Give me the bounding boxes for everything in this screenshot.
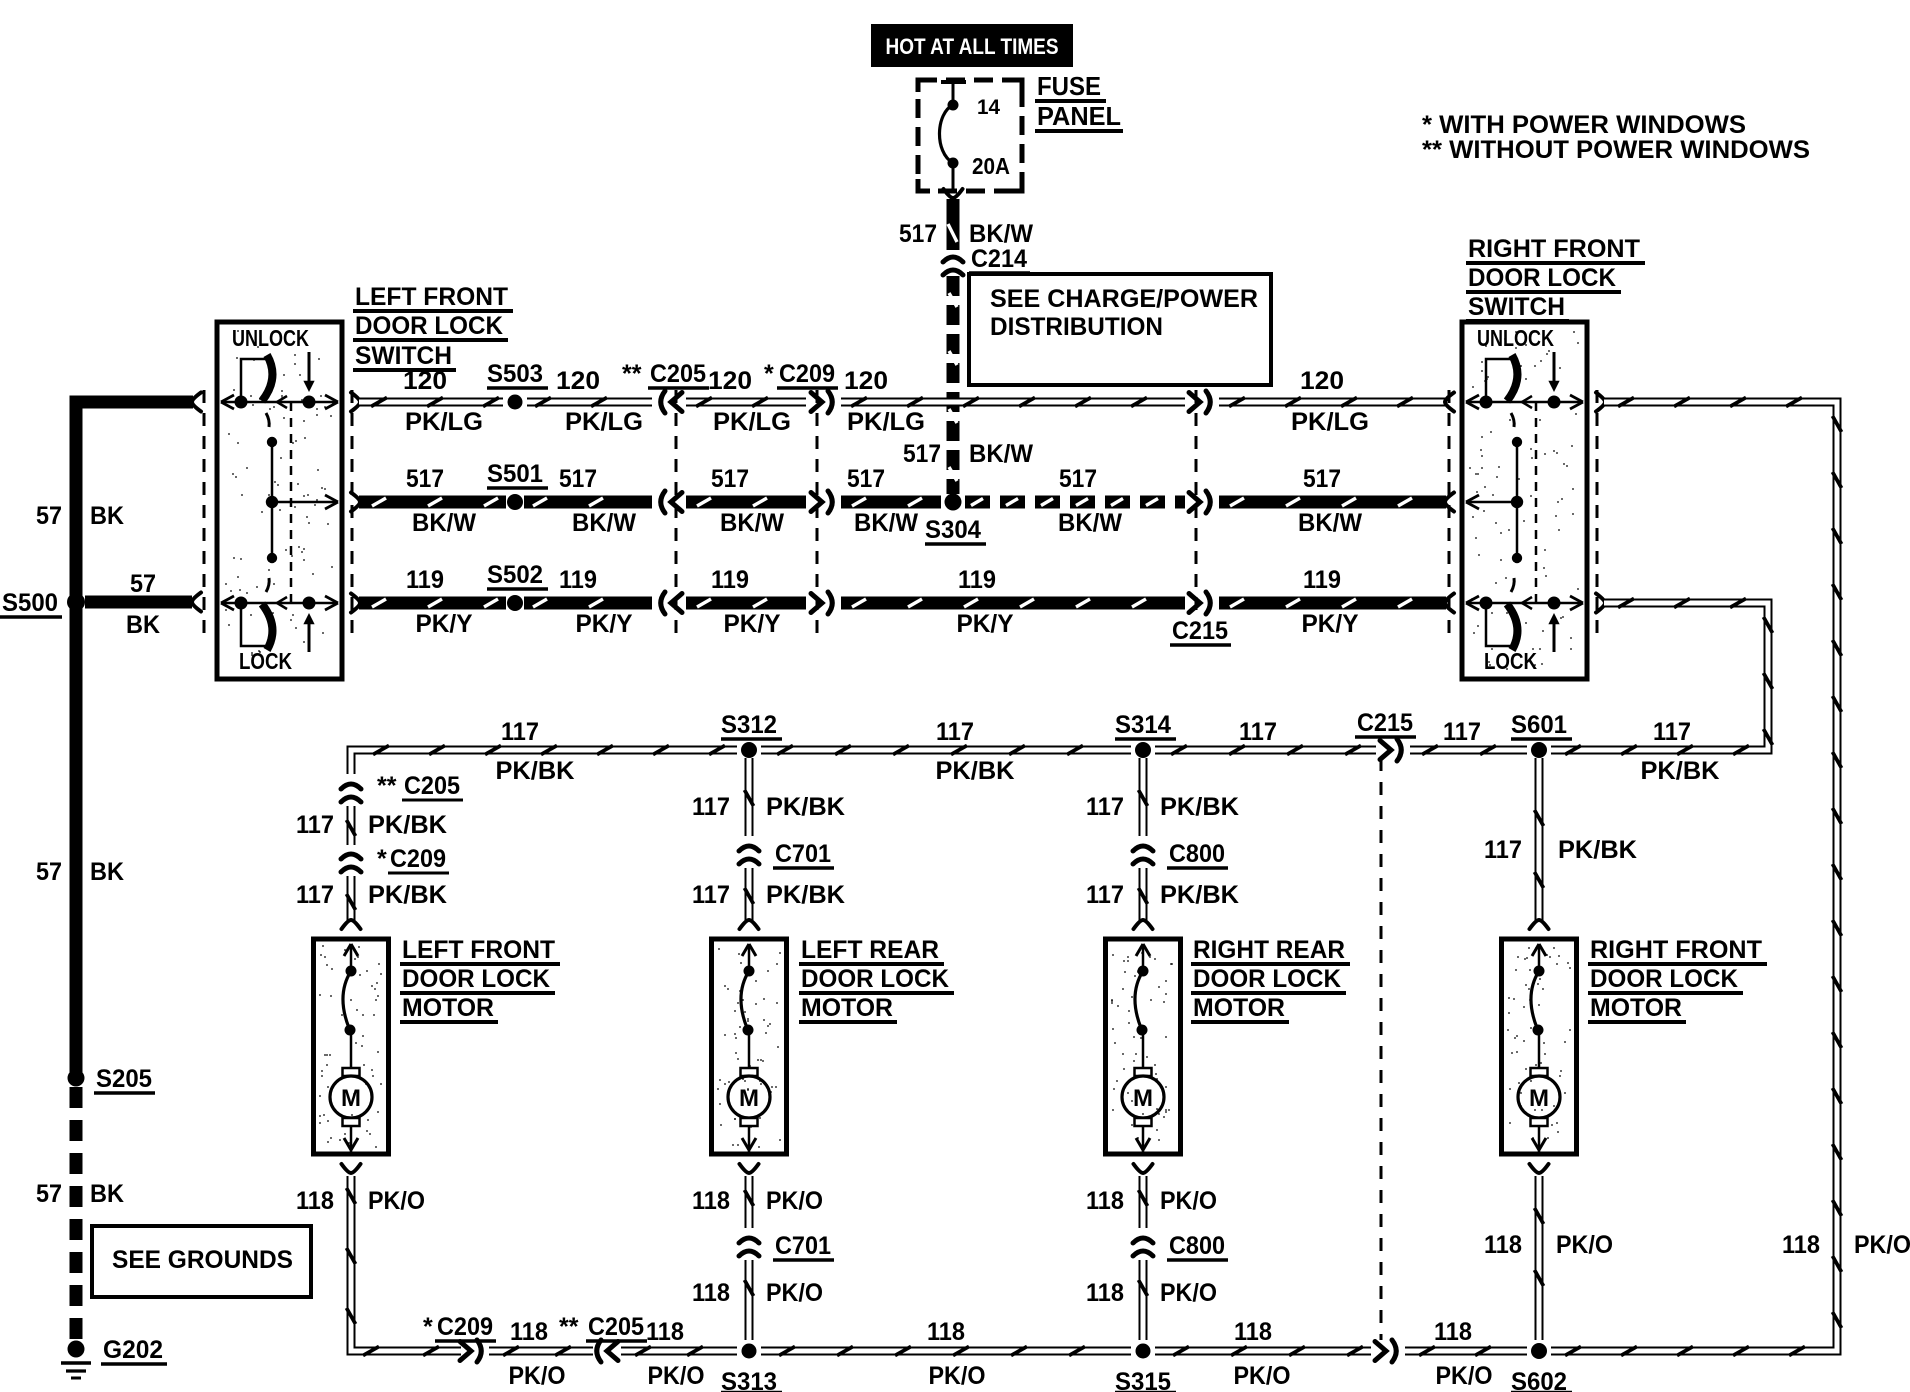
label S313 xyxy=(721,1368,782,1392)
svg-text:SWITCH: SWITCH xyxy=(1468,293,1565,321)
row3 number labels 119 xyxy=(406,566,1341,594)
label S502 xyxy=(487,561,548,589)
svg-text:118: 118 xyxy=(1234,1318,1272,1346)
connector C215 row1 xyxy=(1189,391,1210,413)
svg-text:PK/O: PK/O xyxy=(1854,1231,1910,1259)
wire 119 PK/Y seg4 xyxy=(841,599,1185,607)
drop3 wire 117 PK/BK lower xyxy=(1139,868,1148,921)
label **C205 row1 xyxy=(622,360,709,388)
wire 57 BK left vertical with top horizontal xyxy=(76,393,201,1079)
svg-text:PANEL: PANEL xyxy=(1037,101,1121,131)
right front door lock switch box xyxy=(1462,322,1587,679)
svg-text:BK/W: BK/W xyxy=(412,509,476,537)
svg-text:DOOR LOCK: DOOR LOCK xyxy=(801,965,949,993)
svg-text:117: 117 xyxy=(692,881,730,909)
svg-text:PK/LG: PK/LG xyxy=(565,408,643,436)
svg-text:SEE CHARGE/POWER: SEE CHARGE/POWER xyxy=(990,285,1258,313)
svg-text:PK/O: PK/O xyxy=(1160,1279,1217,1307)
svg-text:RIGHT REAR: RIGHT REAR xyxy=(1193,936,1345,964)
bottom row number labels 118 xyxy=(510,1318,1472,1346)
splice S312 xyxy=(741,742,757,758)
wire 117 PK/BK right link (switch row3 to S601) xyxy=(1551,594,1773,755)
svg-text:S314: S314 xyxy=(1115,711,1171,739)
drop2 wire 117 PK/BK lower xyxy=(745,868,754,921)
row1 number labels 120 xyxy=(403,367,1344,395)
svg-text:DOOR LOCK: DOOR LOCK xyxy=(402,965,550,993)
svg-text:PK/Y: PK/Y xyxy=(416,610,473,638)
label 117 PK/BK drop3 upper xyxy=(1086,793,1239,821)
svg-text:119: 119 xyxy=(406,566,444,594)
wire 517 BK/W seg3 xyxy=(686,498,806,506)
label C215 row3 xyxy=(1170,617,1231,645)
splice S500 xyxy=(67,593,85,611)
label S315 xyxy=(1115,1368,1176,1392)
wire 117 PK/BK seg1 with corner to motor1 xyxy=(351,746,737,775)
wire 119 PK/Y seg1 xyxy=(351,594,506,613)
splice S601 xyxy=(1531,742,1547,758)
svg-text:C209: C209 xyxy=(437,1313,493,1341)
svg-text:118: 118 xyxy=(510,1318,548,1346)
svg-text:57: 57 xyxy=(130,570,156,598)
svg-text:**: ** xyxy=(377,772,397,800)
svg-text:C205: C205 xyxy=(588,1313,644,1341)
connector C209 bottom xyxy=(460,1340,481,1362)
wire 117 PK/BK seg4 xyxy=(1410,746,1527,755)
splice S315 xyxy=(1136,1344,1151,1359)
svg-text:118: 118 xyxy=(692,1187,730,1215)
connector C215 row3 xyxy=(1189,592,1210,614)
svg-text:PK/O: PK/O xyxy=(766,1187,823,1215)
wire 118 PK/O bottom seg5 xyxy=(1155,1347,1371,1356)
wire label 57 above S500 stub xyxy=(130,570,156,598)
svg-text:PK/BK: PK/BK xyxy=(766,881,845,909)
svg-text:517: 517 xyxy=(1059,465,1097,493)
svg-text:120: 120 xyxy=(844,367,888,395)
drop1 wire 118 PK/O to bottom row with corner xyxy=(347,1176,462,1356)
drop3 fork into motor3 xyxy=(1134,920,1153,929)
wire 517 BK/W seg2 xyxy=(524,498,652,506)
svg-text:S602: S602 xyxy=(1511,1368,1567,1392)
label S314 xyxy=(1115,711,1176,739)
svg-text:120: 120 xyxy=(403,367,447,395)
wire 120 PK/LG seg2 xyxy=(527,398,652,407)
svg-text:120: 120 xyxy=(708,367,752,395)
svg-text:PK/BK: PK/BK xyxy=(1558,836,1637,864)
connector C215 row2 xyxy=(1189,491,1210,513)
label 118 PK/O drop4 xyxy=(1484,1231,1613,1259)
label C800 drop3 xyxy=(1167,840,1228,868)
wire 517 BK/W dashed from C214 to S304 xyxy=(949,276,957,494)
fuse panel box xyxy=(918,80,1022,191)
wire 120 PK/LG seg4 xyxy=(841,398,1185,407)
wire 119 PK/Y seg2 xyxy=(524,599,652,607)
svg-text:BK: BK xyxy=(90,858,124,886)
wire 117 PK/BK seg2 xyxy=(761,746,1131,755)
connector line C215 dashed vertical upper xyxy=(1195,390,1198,612)
drop2 fork into motor2 xyxy=(740,920,759,929)
connector C209 row2 xyxy=(811,491,832,513)
row3 color labels PK/Y xyxy=(416,610,1359,638)
label 118 PK/O drop3 upper xyxy=(1086,1187,1217,1215)
svg-text:PK/Y: PK/Y xyxy=(724,610,781,638)
splice S314 xyxy=(1135,742,1151,758)
svg-text:C800: C800 xyxy=(1169,840,1225,868)
svg-text:S205: S205 xyxy=(96,1065,152,1093)
svg-text:C800: C800 xyxy=(1169,1232,1225,1260)
label 117 PK/BK drop1 lower xyxy=(296,881,447,909)
svg-text:M: M xyxy=(1133,1085,1153,1112)
svg-text:DISTRIBUTION: DISTRIBUTION xyxy=(990,313,1163,341)
left switch connector dashed lines xyxy=(204,390,352,640)
label **C205 drop1 xyxy=(377,772,463,800)
svg-text:C215: C215 xyxy=(1172,617,1228,645)
wire 57 BK dashed from S205 to G202 xyxy=(70,1087,83,1341)
svg-text:117: 117 xyxy=(296,811,334,839)
label C800 drop3 lower xyxy=(1167,1232,1228,1260)
row2 color labels BK/W xyxy=(412,509,1362,537)
label *C209 row1 xyxy=(764,360,838,388)
svg-text:M: M xyxy=(341,1085,361,1112)
connector C209 row3 xyxy=(811,592,832,614)
row2 number labels 517 xyxy=(406,465,1341,493)
label 118 PK/O drop2 upper xyxy=(692,1187,823,1215)
connector C205 bottom xyxy=(597,1340,618,1362)
svg-text:MOTOR: MOTOR xyxy=(402,994,494,1022)
label S602 xyxy=(1511,1368,1572,1392)
svg-text:117: 117 xyxy=(1653,718,1691,746)
splice S205 xyxy=(68,1070,85,1087)
svg-text:S304: S304 xyxy=(925,516,981,544)
wire 118 PK/O bottom seg6 xyxy=(1405,1347,1527,1356)
connector C214 xyxy=(943,257,963,275)
svg-text:PK/BK: PK/BK xyxy=(1641,757,1720,785)
svg-text:119: 119 xyxy=(1303,566,1341,594)
svg-text:BK/W: BK/W xyxy=(854,509,918,537)
svg-text:517: 517 xyxy=(711,465,749,493)
right switch connector dashed lines xyxy=(1449,390,1597,640)
label 118 PK/O drop3 lower xyxy=(1086,1279,1217,1307)
svg-text:LEFT REAR: LEFT REAR xyxy=(801,936,939,964)
connector C205 row1 xyxy=(661,391,682,413)
drop2 fork below motor2 xyxy=(740,1164,759,1173)
svg-text:HOT AT ALL TIMES: HOT AT ALL TIMES xyxy=(886,34,1059,59)
svg-text:120: 120 xyxy=(1300,367,1344,395)
svg-text:PK/BK: PK/BK xyxy=(766,793,845,821)
svg-text:57: 57 xyxy=(36,502,62,530)
svg-text:118: 118 xyxy=(1484,1231,1522,1259)
label S312 xyxy=(721,711,782,739)
svg-text:PK/O: PK/O xyxy=(368,1187,425,1215)
svg-text:UNLOCK: UNLOCK xyxy=(1477,325,1554,351)
wire 57 BK stub from S500 to switch xyxy=(85,593,201,612)
svg-text:117: 117 xyxy=(1443,718,1481,746)
svg-text:117: 117 xyxy=(1239,718,1277,746)
left switch internals (contacts, arrows) xyxy=(221,352,338,652)
wire 118 PK/O bottom seg2 xyxy=(489,1347,593,1356)
svg-text:C209: C209 xyxy=(779,360,835,388)
svg-text:117: 117 xyxy=(1086,793,1124,821)
svg-text:S500: S500 xyxy=(2,589,58,617)
drop2 wire 118 PK/O upper xyxy=(745,1176,754,1228)
svg-text:517: 517 xyxy=(847,465,885,493)
label G202 xyxy=(101,1336,167,1364)
bottom row color labels PK/O xyxy=(509,1362,1493,1390)
label 117 PK/BK drop2 lower xyxy=(692,881,845,909)
connector C205 row3 xyxy=(661,592,682,614)
drop1 fork into motor1 xyxy=(342,920,361,929)
svg-text:PK/Y: PK/Y xyxy=(576,610,633,638)
svg-text:117: 117 xyxy=(936,718,974,746)
svg-text:LOCK: LOCK xyxy=(1484,648,1537,674)
svg-text:PK/BK: PK/BK xyxy=(368,811,447,839)
svg-text:C205: C205 xyxy=(404,772,460,800)
svg-text:**: ** xyxy=(559,1313,579,1341)
svg-text:BK/W: BK/W xyxy=(1298,509,1362,537)
svg-text:PK/BK: PK/BK xyxy=(496,757,575,785)
drop3 connector C800 xyxy=(1133,846,1153,864)
svg-text:UNLOCK: UNLOCK xyxy=(232,325,309,351)
svg-text:*: * xyxy=(377,845,387,873)
svg-text:PK/O: PK/O xyxy=(1234,1362,1291,1390)
wire 517 BK/W seg6 xyxy=(1219,493,1454,512)
svg-text:LEFT FRONT: LEFT FRONT xyxy=(402,936,555,964)
svg-text:117: 117 xyxy=(692,793,730,821)
svg-text:117: 117 xyxy=(501,718,539,746)
117 row color labels PK/BK xyxy=(496,757,1720,785)
wire 117 PK/BK seg3 xyxy=(1155,746,1376,755)
label RIGHT FRONT DOOR LOCK SWITCH xyxy=(1466,235,1645,321)
drop4 wire 117 PK/BK xyxy=(1535,758,1544,921)
row1 color labels PK/LG xyxy=(405,408,1369,436)
svg-text:PK/LG: PK/LG xyxy=(847,408,925,436)
svg-text:C205: C205 xyxy=(650,360,706,388)
svg-text:BK/W: BK/W xyxy=(969,220,1033,248)
svg-text:BK/W: BK/W xyxy=(969,440,1033,468)
svg-text:118: 118 xyxy=(1782,1231,1820,1259)
svg-text:*: * xyxy=(423,1313,433,1341)
fuse F14 20A symbol xyxy=(939,82,966,193)
svg-text:RIGHT FRONT: RIGHT FRONT xyxy=(1468,235,1640,263)
drop2 wire 118 PK/O lower xyxy=(745,1260,754,1340)
wire label 57 BK middle xyxy=(36,858,124,886)
drop1 connector C205 xyxy=(341,784,361,802)
wire 517 BK/W seg1 xyxy=(351,493,506,512)
svg-text:DOOR LOCK: DOOR LOCK xyxy=(355,312,503,340)
label C701 drop2 xyxy=(773,840,834,868)
svg-text:S502: S502 xyxy=(487,561,543,589)
svg-text:517: 517 xyxy=(1303,465,1341,493)
svg-text:BK/W: BK/W xyxy=(720,509,784,537)
label 118 PK/O drop2 lower xyxy=(692,1279,823,1307)
drop4 fork below motor4 xyxy=(1530,1164,1549,1173)
drop3 connector C800 lower xyxy=(1133,1238,1153,1256)
label *C209 bottom xyxy=(423,1313,496,1341)
svg-text:118: 118 xyxy=(1086,1279,1124,1307)
wire label 517 BK/W above S304 xyxy=(903,440,1033,468)
label S501 xyxy=(487,460,548,488)
wire label BK below S500 stub xyxy=(126,611,160,639)
right switch text UNLOCK xyxy=(1477,325,1554,351)
svg-text:DOOR LOCK: DOOR LOCK xyxy=(1193,965,1341,993)
svg-text:SWITCH: SWITCH xyxy=(355,342,452,370)
connector C209 row1 xyxy=(811,391,832,413)
svg-text:PK/BK: PK/BK xyxy=(1160,881,1239,909)
drop2 connector C701 xyxy=(739,846,759,864)
connector line C209 dashed vertical xyxy=(816,390,819,640)
connector C205 row2 xyxy=(661,491,682,513)
label 117 PK/BK drop4 xyxy=(1484,836,1637,864)
svg-text:57: 57 xyxy=(36,858,62,886)
connector C215 bottom xyxy=(1375,1340,1396,1362)
svg-text:517: 517 xyxy=(899,220,937,248)
wire 118 PK/O bottom seg4 xyxy=(761,1347,1131,1356)
svg-text:BK: BK xyxy=(90,502,124,530)
svg-text:117: 117 xyxy=(1086,881,1124,909)
svg-text:119: 119 xyxy=(958,566,996,594)
svg-text:118: 118 xyxy=(296,1187,334,1215)
drop3 wire 118 PK/O upper xyxy=(1139,1176,1148,1228)
svg-text:LOCK: LOCK xyxy=(239,648,292,674)
wire 120 PK/LG seg5 xyxy=(1219,393,1454,412)
label HOT AT ALL TIMES xyxy=(871,24,1073,67)
splice S313 xyxy=(742,1344,757,1359)
svg-text:C209: C209 xyxy=(390,845,446,873)
left switch text UNLOCK xyxy=(232,325,309,351)
svg-text:S315: S315 xyxy=(1115,1368,1171,1392)
svg-text:LEFT FRONT: LEFT FRONT xyxy=(355,283,508,311)
drop4 fork into motor4 xyxy=(1530,920,1549,929)
svg-text:** WITHOUT POWER WINDOWS: ** WITHOUT POWER WINDOWS xyxy=(1422,136,1810,164)
wire 120 PK/LG seg3 xyxy=(686,398,806,407)
svg-text:PK/O: PK/O xyxy=(1556,1231,1613,1259)
label LEFT FRONT DOOR LOCK SWITCH xyxy=(353,283,513,370)
drop1 wire 117 PK/BK mid xyxy=(347,806,356,845)
wire label 517 BK/W at C214 xyxy=(899,220,1033,248)
wire 119 PK/Y seg5 xyxy=(1219,594,1454,613)
left front door lock motor box xyxy=(314,939,389,1154)
svg-text:57: 57 xyxy=(36,1180,62,1208)
left switch text LOCK xyxy=(239,648,292,674)
svg-text:S313: S313 xyxy=(721,1368,777,1392)
label S500 xyxy=(0,589,62,617)
svg-text:PK/LG: PK/LG xyxy=(405,408,483,436)
svg-text:118: 118 xyxy=(927,1318,965,1346)
svg-text:PK/O: PK/O xyxy=(509,1362,566,1390)
svg-text:DOOR LOCK: DOOR LOCK xyxy=(1590,965,1738,993)
left rear door lock motor box xyxy=(712,939,787,1154)
svg-text:MOTOR: MOTOR xyxy=(1193,994,1285,1022)
svg-text:M: M xyxy=(1529,1085,1549,1112)
svg-text:RIGHT FRONT: RIGHT FRONT xyxy=(1590,936,1762,964)
wire label 57 BK upper xyxy=(36,502,124,530)
legend with/without power windows xyxy=(1422,111,1810,164)
label C701 drop2 lower xyxy=(773,1232,834,1260)
svg-text:117: 117 xyxy=(296,881,334,909)
svg-text:14: 14 xyxy=(977,96,1000,119)
label *C209 drop1 xyxy=(377,845,449,873)
svg-text:MOTOR: MOTOR xyxy=(801,994,893,1022)
svg-text:M: M xyxy=(739,1085,759,1112)
svg-text:PK/BK: PK/BK xyxy=(936,757,1015,785)
svg-text:**: ** xyxy=(622,360,642,388)
right rear door lock motor box xyxy=(1106,939,1181,1154)
svg-text:PK/O: PK/O xyxy=(648,1362,705,1390)
svg-text:BK: BK xyxy=(126,611,160,639)
wire 118 PK/O right loop (switch row1 to S602) xyxy=(1551,393,1842,1356)
wire 120 PK/LG seg1 xyxy=(351,393,503,412)
svg-text:C214: C214 xyxy=(971,245,1027,273)
wire 119 PK/Y seg3 xyxy=(686,599,806,607)
connector line C215 dashed vertical lower xyxy=(1380,758,1383,1340)
drop2 wire 117 PK/BK upper xyxy=(745,758,754,836)
label 117 PK/BK drop2 upper xyxy=(692,793,845,821)
label RIGHT FRONT DOOR LOCK MOTOR xyxy=(1588,936,1767,1022)
wire label 57 BK lower xyxy=(36,1180,124,1208)
svg-text:PK/O: PK/O xyxy=(766,1279,823,1307)
svg-text:517: 517 xyxy=(903,440,941,468)
drop4 wire 118 PK/O xyxy=(1535,1176,1544,1340)
svg-text:BK/W: BK/W xyxy=(1058,509,1122,537)
svg-text:119: 119 xyxy=(559,566,597,594)
label FUSE PANEL xyxy=(1035,71,1123,131)
svg-text:G202: G202 xyxy=(103,1336,163,1364)
fuse value label 20A xyxy=(972,153,1010,179)
wire 517 BK/W seg4 xyxy=(841,498,941,506)
svg-text:*: * xyxy=(764,360,774,388)
svg-text:FUSE: FUSE xyxy=(1037,71,1101,101)
drop1 connector C209 xyxy=(341,854,361,872)
svg-text:517: 517 xyxy=(406,465,444,493)
right front door lock motor box xyxy=(1502,939,1577,1154)
label 118 PK/O drop1 xyxy=(296,1187,425,1215)
wire 517 BK/W from fuse panel xyxy=(944,189,963,250)
drop3 wire 118 PK/O lower xyxy=(1139,1260,1148,1340)
wire 517 BK/W seg5 dashed xyxy=(965,499,1185,506)
label 117 PK/BK drop1 upper xyxy=(296,811,447,839)
label S503 xyxy=(487,360,548,388)
svg-text:S601: S601 xyxy=(1511,711,1567,739)
label S205 xyxy=(94,1065,155,1093)
svg-text:* WITH POWER WINDOWS: * WITH POWER WINDOWS xyxy=(1422,111,1746,139)
svg-text:S503: S503 xyxy=(487,360,543,388)
connector line C205 dashed vertical xyxy=(675,390,678,640)
drop1 wire 117 PK/BK lower xyxy=(347,876,356,921)
left front door lock switch box xyxy=(217,322,342,679)
svg-text:118: 118 xyxy=(1086,1187,1124,1215)
svg-text:118: 118 xyxy=(1434,1318,1472,1346)
svg-text:120: 120 xyxy=(556,367,600,395)
label S304 xyxy=(925,516,986,544)
svg-text:20A: 20A xyxy=(972,153,1010,179)
svg-text:PK/O: PK/O xyxy=(1160,1187,1217,1215)
label RIGHT REAR DOOR LOCK MOTOR xyxy=(1191,936,1350,1022)
drop2 connector C701 lower xyxy=(739,1238,759,1256)
svg-text:PK/O: PK/O xyxy=(929,1362,986,1390)
label LEFT FRONT DOOR LOCK MOTOR xyxy=(400,936,560,1022)
svg-text:C215: C215 xyxy=(1357,709,1413,737)
svg-text:119: 119 xyxy=(711,566,749,594)
svg-text:PK/Y: PK/Y xyxy=(957,610,1014,638)
splice S602 xyxy=(1531,1343,1547,1359)
right switch internals (contacts, arrows) xyxy=(1466,352,1583,652)
label C215 117row xyxy=(1355,709,1416,737)
label 117 PK/BK drop3 lower xyxy=(1086,881,1239,909)
117 row number labels xyxy=(501,718,1691,746)
label LEFT REAR DOOR LOCK MOTOR xyxy=(799,936,954,1022)
label **C205 bottom xyxy=(559,1313,647,1341)
connector label C214 xyxy=(969,245,1030,273)
splice S503 xyxy=(508,395,523,410)
